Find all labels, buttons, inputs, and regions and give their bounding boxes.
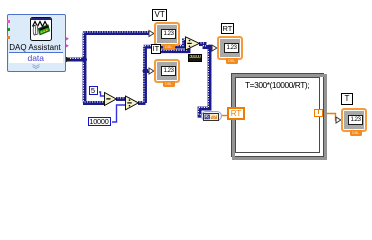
divide1 node bbox=[126, 96, 139, 110]
wire: RT drop to converter bbox=[200, 47, 210, 116]
T tunnel bbox=[314, 109, 323, 117]
wire: branch to IT indicator bbox=[144, 69, 150, 73]
label VT bbox=[152, 9, 167, 21]
hatch overlay: divide1 out bbox=[137, 101, 145, 103]
DAQ Assistant title bbox=[7, 43, 63, 52]
wire: riser to divide2 upper input bbox=[144, 41, 187, 47]
DAQ right edge pin 2 bbox=[65, 44, 69, 49]
wire: converter to RT tunnel (orange) bbox=[220, 115, 229, 117]
subtract node bbox=[105, 93, 117, 106]
svg-text:dbl: dbl bbox=[211, 114, 218, 119]
DAQ data output arrow bbox=[66, 57, 72, 63]
label T bbox=[341, 93, 353, 105]
divide2 label box bbox=[188, 54, 202, 62]
wire: 10000 const to divide1 lower input bbox=[112, 105, 126, 122]
indicator RT bbox=[217, 36, 243, 60]
junction: IT tee bbox=[143, 69, 148, 74]
wires layer bbox=[0, 0, 372, 165]
RT tunnel bbox=[227, 107, 245, 120]
IT input terminal arrow bbox=[149, 68, 154, 74]
wire: 5 const to subtract top input bbox=[99, 92, 105, 96]
DAQ icon bbox=[30, 17, 52, 41]
hatch overlay: RT drop bbox=[198, 46, 208, 115]
DAQ left pin orange bbox=[7, 36, 10, 39]
wire: main vertical data bus bbox=[83, 31, 87, 103]
formula node bbox=[231, 73, 324, 157]
wire: data to subtract lower input bbox=[83, 101, 105, 105]
indicator VT bbox=[154, 22, 180, 46]
hatch overlay: lower wire bbox=[151, 45, 188, 50]
hatch overlay: subtract-divide1 bbox=[115, 97, 125, 99]
wire: divide1 out bbox=[138, 101, 146, 105]
hatch overlay: to VT bbox=[82, 31, 149, 33]
junction: RT tee bbox=[207, 45, 212, 50]
indicator IT bbox=[154, 59, 180, 83]
wire: data out to junction bbox=[66, 58, 85, 62]
hatch overlay: riser to divide2 bbox=[142, 39, 185, 45]
label IT (sits on wires) bbox=[151, 44, 161, 54]
hatch overlay: IT branch bbox=[143, 69, 149, 71]
DAQ left pin magenta bbox=[7, 20, 10, 23]
wire: subtract out to divide1 bbox=[116, 97, 126, 101]
convert from dynamic data bbox=[201, 111, 222, 121]
wire: data to VT indicator bbox=[83, 31, 150, 35]
divide2 node bbox=[186, 37, 200, 50]
DAQ left pin green bbox=[7, 28, 10, 31]
hatch overlay: data out bbox=[65, 57, 84, 59]
constant 10000 bbox=[88, 117, 111, 127]
hatch overlay: divide2 out bbox=[198, 43, 212, 46]
DAQ right edge pin 1 bbox=[65, 37, 69, 42]
hatch overlay: to subtract bbox=[82, 101, 104, 103]
RT input terminal arrow bbox=[212, 45, 217, 51]
VT input terminal arrow bbox=[149, 31, 154, 37]
formula text bbox=[245, 80, 309, 90]
chevron row bbox=[9, 63, 64, 69]
wire: lower parallel wire to divide2 bbox=[152, 46, 189, 51]
constant 5 bbox=[89, 86, 98, 95]
wire: T tunnel to T indicator (orange) bbox=[324, 114, 338, 121]
T input terminal arrow bbox=[336, 117, 341, 123]
wire: divide2 out to RT junction bbox=[199, 44, 213, 47]
junction: data tee bbox=[82, 57, 87, 62]
hatch overlay: data bus bbox=[82, 30, 84, 102]
DAQ Assistant express VI bbox=[7, 14, 66, 72]
hatch overlay: IT riser bbox=[143, 46, 145, 102]
wire: IT riser bbox=[143, 47, 147, 103]
indicator T bbox=[341, 108, 367, 132]
label RT bbox=[221, 23, 234, 34]
data output row bbox=[9, 52, 64, 65]
